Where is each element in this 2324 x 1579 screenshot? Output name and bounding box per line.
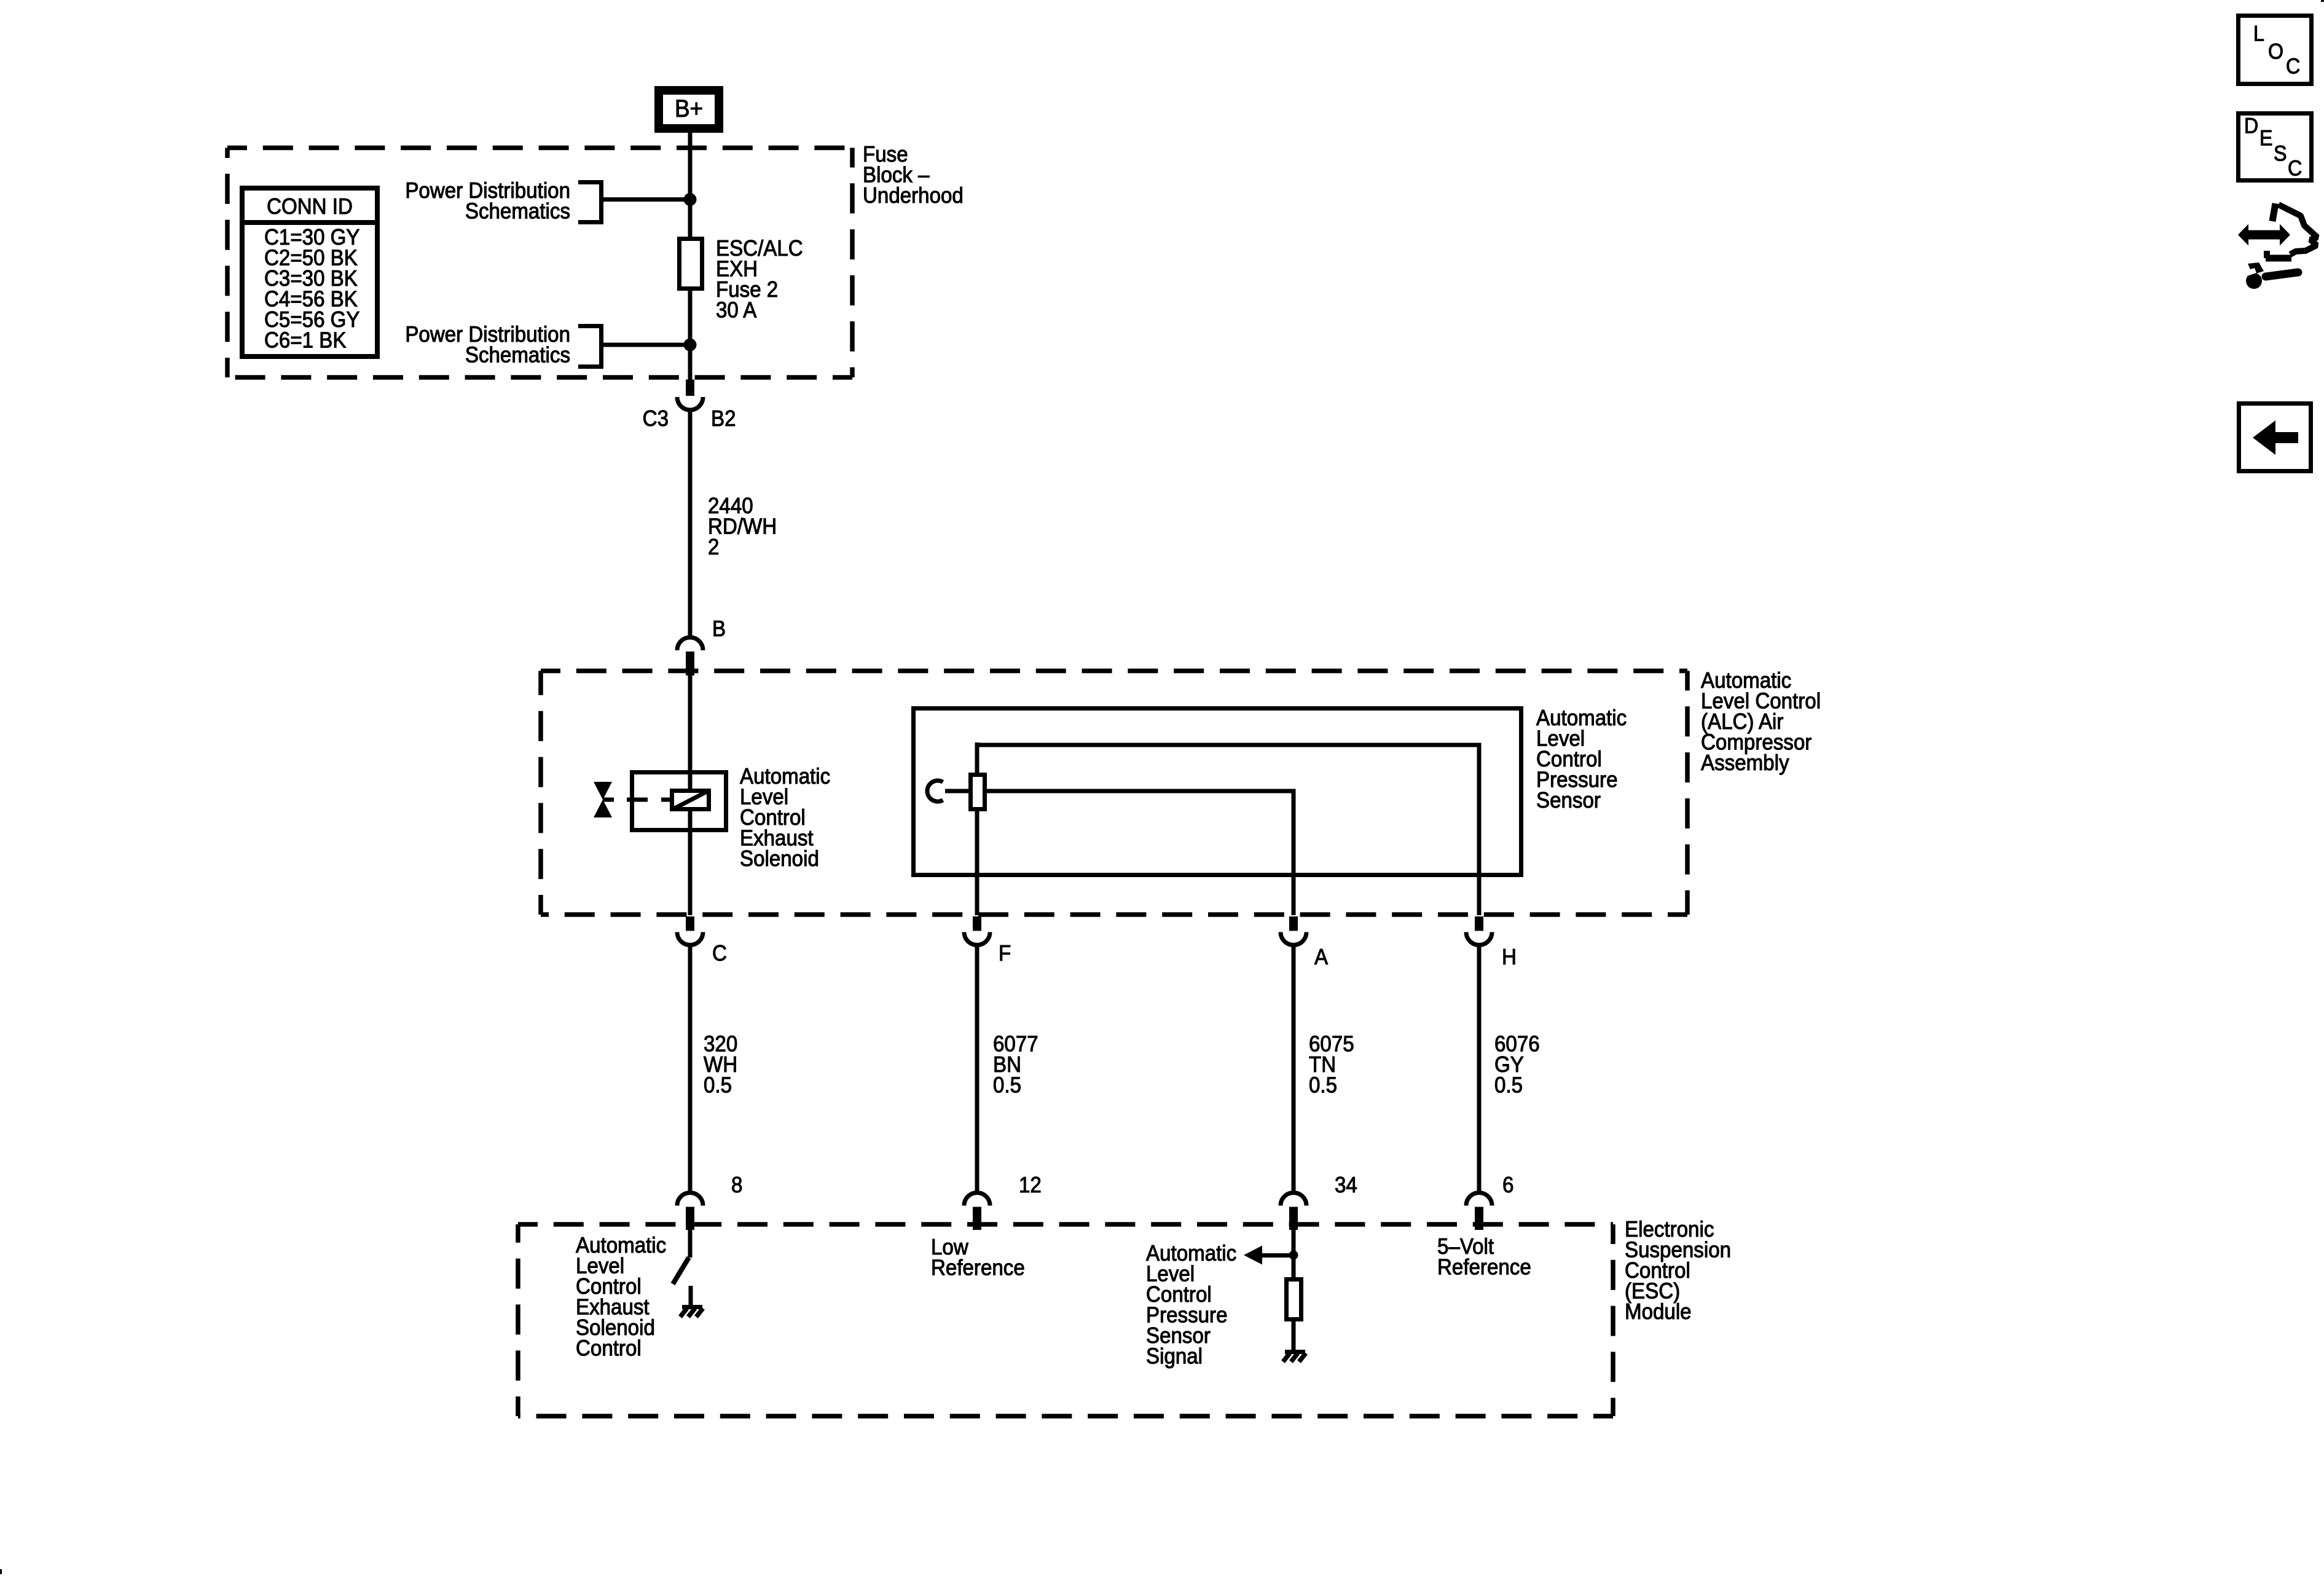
svg-text:Control: Control — [576, 1336, 642, 1361]
svg-text:A: A — [1314, 945, 1328, 970]
svg-text:E: E — [2259, 127, 2272, 151]
svg-text:34: 34 — [1335, 1173, 1357, 1198]
svg-text:S: S — [2274, 142, 2287, 166]
svg-text:Module: Module — [1625, 1300, 1692, 1325]
svg-text:L: L — [2253, 22, 2264, 46]
svg-text:C: C — [2286, 55, 2300, 79]
svg-text:0.5: 0.5 — [993, 1073, 1021, 1098]
svg-text:0.5: 0.5 — [1309, 1073, 1337, 1098]
svg-text:C6=1 BK: C6=1 BK — [264, 328, 346, 353]
svg-text:B: B — [712, 617, 726, 642]
svg-text:Reference: Reference — [1437, 1255, 1531, 1280]
svg-text:Reference: Reference — [931, 1256, 1025, 1280]
svg-text:B2: B2 — [711, 407, 736, 431]
svg-text:Schematics: Schematics — [465, 343, 570, 368]
svg-text:C: C — [712, 942, 727, 966]
svg-text:CONN ID: CONN ID — [267, 195, 353, 219]
svg-text:H: H — [1502, 945, 1517, 970]
svg-text:Underhood: Underhood — [863, 184, 964, 208]
svg-text:8: 8 — [731, 1173, 742, 1198]
svg-text:6: 6 — [1502, 1173, 1513, 1198]
svg-text:Sensor: Sensor — [1536, 789, 1601, 813]
svg-text:2: 2 — [708, 535, 719, 560]
svg-text:Assembly: Assembly — [1701, 751, 1789, 776]
svg-text:0.5: 0.5 — [1494, 1073, 1523, 1098]
svg-text:C: C — [2288, 157, 2302, 181]
svg-text:B+: B+ — [675, 95, 703, 123]
svg-text:Signal: Signal — [1146, 1344, 1203, 1369]
svg-text:D: D — [2244, 114, 2258, 138]
svg-text:C3: C3 — [643, 407, 669, 431]
svg-text:Solenoid: Solenoid — [740, 847, 819, 872]
svg-text:30 A: 30 A — [716, 298, 756, 323]
svg-text:0.5: 0.5 — [704, 1073, 732, 1098]
svg-text:12: 12 — [1019, 1173, 1042, 1198]
svg-text:Schematics: Schematics — [465, 199, 570, 224]
svg-text:O: O — [2268, 40, 2283, 64]
svg-text:F: F — [999, 942, 1011, 966]
